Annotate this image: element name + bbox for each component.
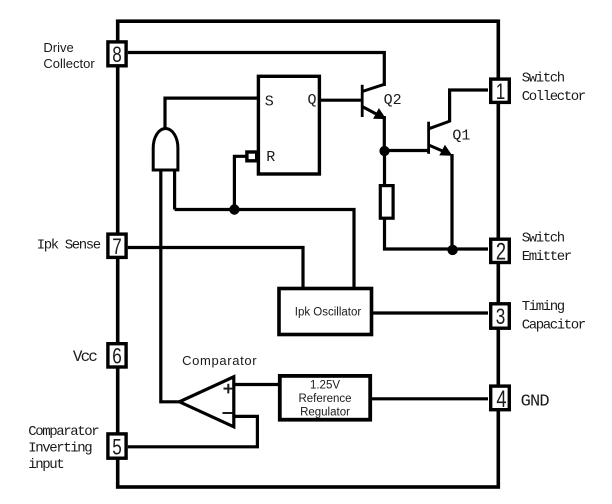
svg-text:1.25V: 1.25V xyxy=(310,379,340,391)
label Comparator Inverting input xyxy=(28,424,99,473)
wire R-node up to R input xyxy=(234,156,246,209)
label Timing Capacitor xyxy=(522,299,586,333)
svg-text:4: 4 xyxy=(496,386,506,413)
pin 4 xyxy=(491,386,510,413)
svg-text:Inverting: Inverting xyxy=(28,440,92,456)
svg-text:Q: Q xyxy=(308,92,317,109)
wire pin5 to comparator inverting input xyxy=(128,416,258,446)
wire R-node to oscillator top xyxy=(175,210,354,290)
svg-text:3: 3 xyxy=(496,305,506,330)
pin 5 xyxy=(108,434,126,460)
svg-text:Drive: Drive xyxy=(43,40,73,55)
1.25V Reference Regulator block xyxy=(280,376,370,420)
svg-text:input: input xyxy=(28,457,63,473)
node A junction dot at R wire xyxy=(229,204,239,214)
svg-text:R: R xyxy=(266,149,275,166)
svg-text:Comparator: Comparator xyxy=(28,424,99,440)
label Vcc xyxy=(73,348,97,366)
label Ipk Sense xyxy=(37,238,101,254)
AND gate xyxy=(153,129,178,171)
svg-text:Q1: Q1 xyxy=(452,128,470,145)
svg-text:Reference: Reference xyxy=(298,393,351,405)
svg-text:GND: GND xyxy=(521,393,550,412)
Ipk Oscillator block xyxy=(279,289,372,335)
svg-text:Collector: Collector xyxy=(43,56,95,71)
transistor Q1 xyxy=(429,121,471,160)
wire Q2 emitter node to Q1 base xyxy=(385,149,429,152)
svg-text:Switch: Switch xyxy=(522,231,565,247)
svg-text:Capacitor: Capacitor xyxy=(522,318,586,334)
wire Q2 emitter node down to resistor xyxy=(383,151,386,185)
svg-text:Timing: Timing xyxy=(522,299,565,315)
wire Q1 emitter down to bottom wire xyxy=(450,156,453,249)
label Switch Emitter xyxy=(522,231,572,265)
svg-text:5: 5 xyxy=(112,435,122,460)
op-amp comparator xyxy=(179,377,233,427)
wire resistor bottom to pin 2 xyxy=(385,219,489,249)
svg-text:7: 7 xyxy=(112,235,122,260)
svg-text:Q2: Q2 xyxy=(384,92,402,109)
pin 6 xyxy=(108,344,126,370)
wire latch Q output to Q2 base xyxy=(319,99,362,102)
R input square xyxy=(247,152,257,161)
pin 2 xyxy=(491,238,510,265)
comparator label xyxy=(182,353,257,368)
svg-text:1: 1 xyxy=(496,80,506,105)
resistor R1 xyxy=(380,186,393,219)
svg-text:Collector: Collector xyxy=(522,89,586,105)
label Drive Collector xyxy=(43,40,95,71)
transistor Q2 xyxy=(362,84,401,151)
svg-text:Emitter: Emitter xyxy=(522,249,572,265)
IC package outline xyxy=(118,21,499,487)
wire Q1 collector to pin 1 xyxy=(450,90,488,122)
svg-text:8: 8 xyxy=(112,43,122,68)
svg-text:2: 2 xyxy=(496,238,506,265)
wire comparator output to AND gate input xyxy=(161,168,180,402)
wire oscillator output to pin 3 xyxy=(373,311,488,314)
SR latch U1 xyxy=(258,76,319,174)
svg-text:Ipk Sense: Ipk Sense xyxy=(37,238,101,254)
wire pin7 to Ipk Oscillator top xyxy=(128,248,303,290)
svg-text:6: 6 xyxy=(112,344,122,369)
junction dot Q2 emitter node xyxy=(379,146,389,156)
svg-text:S: S xyxy=(265,94,274,111)
label GND xyxy=(521,393,550,412)
svg-text:Ipk Oscillator: Ipk Oscillator xyxy=(295,307,362,319)
wire AND gate output to S input xyxy=(165,98,258,129)
svg-text:Switch: Switch xyxy=(522,71,565,87)
wire AND gate right input down to R-node wire xyxy=(173,168,176,210)
pin 3 xyxy=(491,304,510,330)
pin 8 xyxy=(108,42,126,68)
label Switch Collector xyxy=(522,71,586,105)
junction dot Q1 emitter node xyxy=(447,245,457,255)
pin 1 xyxy=(491,79,510,104)
wire regulator to comparator noninverting input xyxy=(233,383,278,386)
svg-text:Comparator: Comparator xyxy=(182,353,257,368)
svg-text:Regulator: Regulator xyxy=(300,407,350,419)
wire regulator output to pin 4 xyxy=(372,397,488,400)
wire pin8 to Q2 collector xyxy=(128,53,385,87)
pin 7 xyxy=(108,234,126,260)
svg-text:Vcc: Vcc xyxy=(73,348,97,366)
